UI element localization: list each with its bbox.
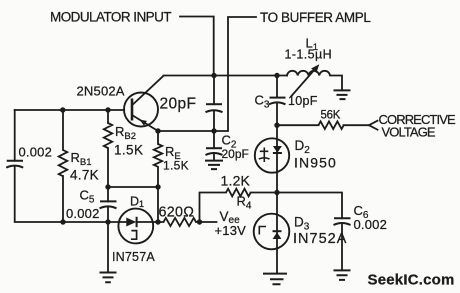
svg-text:IN752A: IN752A (293, 231, 347, 247)
svg-text:D1: D1 (130, 194, 144, 209)
svg-text:D3: D3 (294, 215, 310, 233)
svg-text:MODULATOR INPUT: MODULATOR INPUT (50, 10, 171, 25)
svg-text:1-1.5µH: 1-1.5µH (285, 48, 333, 62)
svg-text:0.002: 0.002 (354, 217, 388, 232)
svg-text:20pF: 20pF (160, 96, 197, 113)
svg-text:0.002: 0.002 (66, 206, 100, 221)
svg-text:1.5K: 1.5K (114, 143, 143, 158)
svg-text:VOLTAGE: VOLTAGE (382, 125, 436, 140)
svg-text:IN950: IN950 (294, 155, 337, 171)
svg-text:IN757A: IN757A (112, 250, 155, 264)
svg-text:RB2: RB2 (115, 124, 136, 142)
svg-text:1.5K: 1.5K (163, 159, 189, 173)
svg-text:2N502A: 2N502A (77, 84, 125, 99)
svg-text:D2: D2 (295, 138, 311, 156)
svg-text:620Ω: 620Ω (159, 205, 195, 221)
svg-text:RB1: RB1 (71, 150, 92, 168)
svg-text:1.2K: 1.2K (221, 173, 251, 189)
svg-text:4.7K: 4.7K (70, 168, 99, 183)
svg-text:0.002: 0.002 (19, 145, 53, 160)
svg-text:+13V: +13V (215, 223, 247, 238)
svg-text:10pF: 10pF (288, 94, 318, 108)
svg-text:C5: C5 (80, 188, 95, 206)
svg-text:20pF: 20pF (222, 147, 249, 161)
svg-text:C3: C3 (255, 93, 270, 111)
svg-text:56K: 56K (321, 109, 341, 121)
svg-text:TO BUFFER AMPL: TO BUFFER AMPL (260, 10, 371, 25)
svg-text:SeekIC.com: SeekIC.com (368, 272, 455, 289)
